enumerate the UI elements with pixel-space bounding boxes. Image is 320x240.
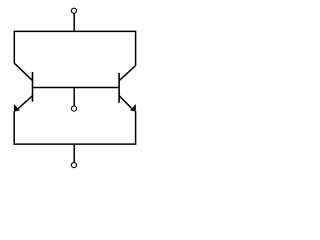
wire base rail: [33, 86, 120, 88]
wire bottom terminal stem: [73, 144, 75, 162]
wire top rail with left and right vertical drops: [14, 31, 135, 65]
transistor Q1: [14, 63, 33, 112]
wire top terminal stem: [73, 13, 75, 31]
node bottom terminal (emitter): [71, 163, 76, 168]
wire bottom rail with left and right risers: [14, 111, 135, 144]
transistor Q2: [119, 66, 136, 112]
wire base terminal stem: [73, 87, 75, 105]
node base terminal: [71, 106, 76, 111]
node top terminal (collector): [71, 8, 76, 13]
